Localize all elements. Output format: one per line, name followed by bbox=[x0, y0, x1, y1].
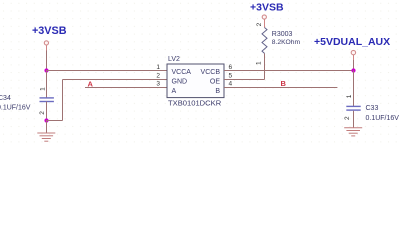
svg-text:+5VDUAL_AUX: +5VDUAL_AUX bbox=[314, 36, 390, 48]
net label +3VSB (above resistor) bbox=[250, 2, 284, 14]
pin name OE bbox=[210, 79, 220, 86]
svg-text:VCCB: VCCB bbox=[201, 69, 221, 76]
svg-text:3: 3 bbox=[156, 81, 160, 88]
label C34 value 0.1UF/16V bbox=[0, 105, 31, 112]
svg-text:8.2KOhm: 8.2KOhm bbox=[272, 39, 301, 46]
capacitor C33 bottom plate bbox=[346, 109, 360, 110]
pin name GND bbox=[172, 79, 188, 86]
net label +3VSB (left) bbox=[32, 25, 67, 37]
svg-text:C34: C34 bbox=[0, 95, 11, 102]
label R3003 refdes bbox=[272, 31, 293, 38]
pin number 2 of IC LV2 bbox=[156, 73, 160, 80]
wire: GND net from junction right then up to row2 bbox=[47, 80, 63, 121]
svg-text:TXB0101DCKR: TXB0101DCKR bbox=[168, 99, 222, 108]
wire: OE net, IC pin 5 right then up to resistor bbox=[224, 53, 265, 79]
wire: vertical from junction down to C34 top plate bbox=[46, 71, 48, 98]
svg-text:OE: OE bbox=[210, 79, 220, 86]
pin number 1 of C33 (rotated) bbox=[346, 94, 353, 98]
svg-text:A: A bbox=[172, 88, 177, 95]
node label A bbox=[88, 80, 94, 89]
wire: A net stub bbox=[85, 87, 167, 89]
svg-text:5: 5 bbox=[229, 73, 233, 80]
IC LV2 body (TXB0101DCKR level shifter) bbox=[167, 64, 224, 98]
svg-text:B: B bbox=[215, 88, 220, 95]
svg-text:1: 1 bbox=[156, 64, 160, 71]
svg-text:2: 2 bbox=[344, 116, 351, 120]
svg-text:2: 2 bbox=[256, 22, 263, 26]
capacitor C33 top plate bbox=[346, 106, 360, 107]
pin number 1 of IC LV2 bbox=[156, 64, 160, 71]
pin number 6 of IC LV2 bbox=[229, 64, 233, 71]
svg-text:B: B bbox=[281, 79, 287, 88]
pin number 5 of IC LV2 bbox=[229, 73, 233, 80]
svg-text:4: 4 bbox=[229, 81, 233, 88]
wire: GND net row2 to IC pin 2 bbox=[63, 79, 168, 81]
svg-text:+3VSB: +3VSB bbox=[250, 2, 284, 14]
wire: C34 bottom plate down to junction bbox=[46, 102, 48, 121]
wire: stub from power circle to resistor top bbox=[264, 19, 266, 27]
label 8.2KOhm value bbox=[272, 39, 301, 46]
pin name VCCA bbox=[172, 69, 192, 76]
pin number 1 of R3003 (rotated) bbox=[256, 61, 263, 65]
label LV2 refdes bbox=[168, 56, 180, 63]
node: junction below C34 bbox=[44, 118, 48, 122]
pin number 2 of R3003 (rotated) bbox=[256, 22, 263, 26]
pin name A bbox=[172, 88, 177, 95]
ground symbol (right, below C33) bbox=[344, 128, 362, 136]
svg-text:2: 2 bbox=[39, 111, 46, 115]
svg-text:2: 2 bbox=[156, 73, 160, 80]
svg-text:+3VSB: +3VSB bbox=[32, 25, 67, 37]
svg-text:A: A bbox=[88, 80, 94, 89]
svg-text:C33: C33 bbox=[366, 105, 379, 112]
label TXB0101DCKR value bbox=[168, 99, 222, 108]
wire: +5VDUAL_AUX stub down to junction bbox=[353, 55, 355, 71]
wire: junction below C34 down to ground bbox=[46, 121, 48, 133]
label C33 refdes bbox=[366, 105, 379, 112]
svg-text:6: 6 bbox=[229, 64, 233, 71]
pin number 2 of C33 (rotated) bbox=[344, 116, 351, 120]
net label +5VDUAL_AUX bbox=[314, 36, 390, 48]
wire: junction down to C33 top plate bbox=[353, 71, 355, 107]
capacitor C34 top plate bbox=[40, 97, 54, 98]
svg-text:1: 1 bbox=[256, 61, 263, 65]
node: left junction on +3VSB bbox=[44, 68, 48, 72]
wire: +3VSB vertical stub down to junction bbox=[46, 45, 48, 70]
ground symbol (left, below C34) bbox=[37, 133, 55, 141]
pin number 1 of C34 (rotated) bbox=[40, 87, 47, 91]
svg-text:1: 1 bbox=[40, 87, 47, 91]
pin number 4 of IC LV2 bbox=[229, 81, 233, 88]
power symbol circle (+3VSB above resistor) bbox=[262, 15, 266, 19]
label C33 value 0.1UF/16V bbox=[366, 115, 400, 122]
label C34 refdes bbox=[0, 95, 11, 102]
wire: VCCA net, junction to IC pin 1 bbox=[47, 70, 168, 72]
svg-text:R3003: R3003 bbox=[272, 31, 293, 38]
power symbol circle (+5VDUAL_AUX) bbox=[351, 50, 355, 54]
pin name VCCB bbox=[201, 69, 221, 76]
resistor R3003 zigzag bbox=[262, 28, 267, 54]
wire: VCCB net, IC pin 6 to right junction bbox=[224, 70, 354, 72]
svg-text:LV2: LV2 bbox=[168, 56, 180, 63]
svg-text:VCCA: VCCA bbox=[172, 69, 192, 76]
pin number 2 of C34 (rotated) bbox=[39, 111, 46, 115]
wire: C33 bottom plate down to ground bbox=[353, 111, 355, 128]
svg-text:0.1UF/16V: 0.1UF/16V bbox=[366, 115, 400, 122]
svg-text:1: 1 bbox=[346, 94, 353, 98]
pin number 3 of IC LV2 bbox=[156, 81, 160, 88]
node: right junction bbox=[351, 68, 355, 72]
pin name B bbox=[215, 88, 220, 95]
power symbol circle (left +3VSB) bbox=[44, 41, 48, 45]
capacitor C34 bottom plate bbox=[40, 101, 54, 102]
svg-text:0.1UF/16V: 0.1UF/16V bbox=[0, 105, 31, 112]
wire: B net stub from IC pin 4 bbox=[224, 87, 337, 89]
node label B bbox=[281, 79, 287, 88]
svg-text:GND: GND bbox=[172, 79, 188, 86]
